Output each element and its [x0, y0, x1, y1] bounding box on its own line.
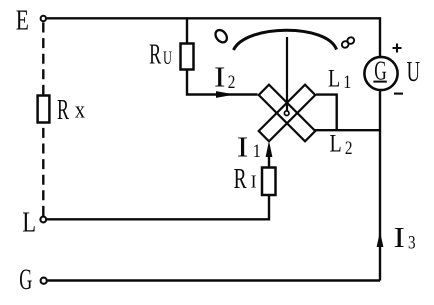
label L1: [328, 64, 340, 92]
label I3: [394, 222, 405, 253]
label U: [407, 56, 421, 88]
terminal G: [41, 278, 47, 284]
svg-text:x: x: [75, 96, 85, 123]
svg-text:G: G: [19, 263, 32, 296]
needle: [286, 37, 288, 111]
wire L2 to right vertical: [315, 129, 381, 131]
coil L1 (NE-SW rectangle): [259, 85, 316, 142]
plus sign: [393, 44, 402, 53]
svg-text:I: I: [237, 131, 248, 162]
wire top: [47, 18, 380, 56]
label G: [19, 263, 32, 296]
svg-text:E: E: [16, 4, 29, 37]
wire bottom: [48, 279, 380, 281]
minus sign: [394, 93, 403, 95]
pivot: [284, 111, 289, 116]
svg-text:U: U: [163, 49, 172, 69]
wire right vertical: [379, 90, 381, 281]
wire dashed E to Rx: [42, 23, 44, 96]
svg-text:2: 2: [228, 71, 236, 92]
arrow I1: [266, 141, 273, 157]
label L: [22, 206, 36, 238]
coil L2 (NW-SE rectangle): [259, 85, 316, 142]
label RI: [234, 163, 247, 195]
svg-text:2: 2: [345, 137, 353, 158]
resistor RI: [262, 168, 276, 196]
svg-text:1: 1: [253, 140, 261, 162]
wire RU branch lower: [187, 70, 258, 95]
arrow I3: [377, 232, 384, 248]
svg-text:R: R: [149, 39, 162, 70]
wire L1 to junction: [316, 95, 337, 131]
galvanometer U1: [364, 57, 397, 90]
label RU: [149, 39, 162, 70]
svg-text:1: 1: [343, 71, 351, 93]
svg-text:L: L: [330, 129, 342, 157]
terminal L: [40, 217, 46, 223]
svg-text:L: L: [22, 206, 36, 238]
label E: [16, 4, 29, 37]
svg-text:U: U: [407, 56, 421, 88]
svg-text:R: R: [234, 163, 247, 195]
scale mark infinity: [341, 36, 356, 49]
wire I1: [268, 150, 270, 168]
scale arc: [234, 30, 337, 50]
scale mark 0: [213, 28, 229, 45]
wire RU branch upper: [186, 18, 188, 43]
svg-text:R: R: [57, 95, 70, 126]
label Rx: [57, 95, 70, 126]
svg-text:I: I: [214, 61, 225, 92]
svg-text:I: I: [394, 222, 405, 253]
svg-text:I: I: [251, 171, 257, 192]
resistor Rx: [38, 96, 50, 123]
label I1: [237, 131, 248, 162]
terminal E: [41, 16, 46, 21]
svg-text:L: L: [328, 64, 340, 92]
resistor RU: [181, 44, 194, 70]
label I2: [214, 61, 225, 92]
arrow I2: [216, 91, 235, 98]
svg-text:3: 3: [408, 232, 416, 253]
wire dashed Rx to L: [42, 123, 44, 216]
wire RI to L terminal: [47, 195, 269, 219]
label L2: [330, 129, 342, 157]
